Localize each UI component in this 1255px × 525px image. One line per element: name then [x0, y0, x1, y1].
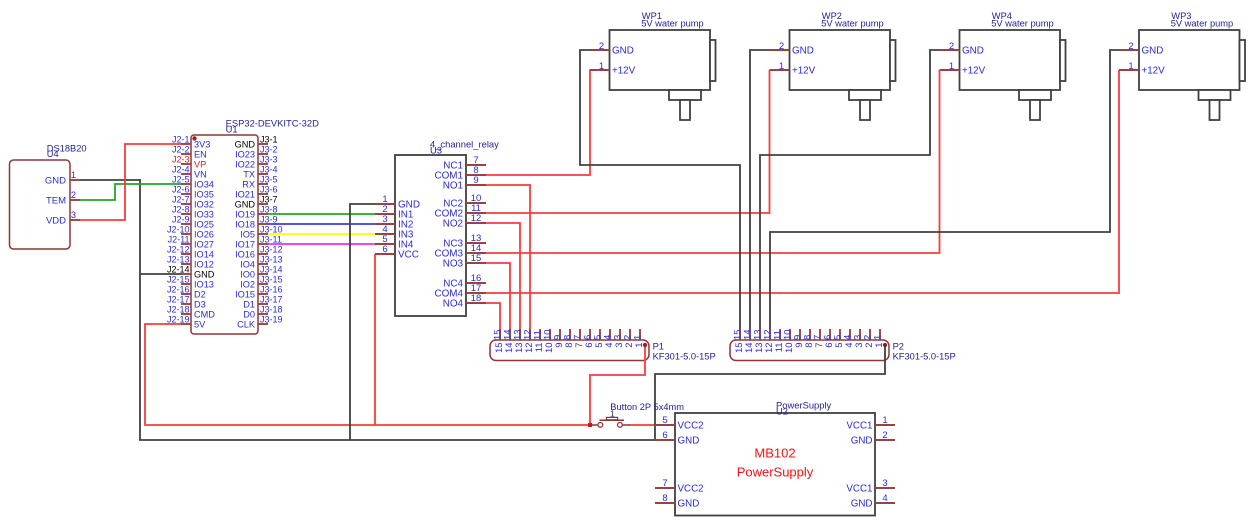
svg-text:9: 9: [473, 175, 478, 186]
svg-text:2: 2: [599, 41, 604, 52]
svg-text:J3-9: J3-9: [260, 215, 278, 225]
svg-text:D2: D2: [194, 289, 206, 299]
svg-text:J2-5: J2-5: [172, 175, 190, 185]
svg-text:J2-19: J2-19: [167, 315, 190, 325]
svg-text:3V3: 3V3: [194, 139, 210, 149]
svg-text:ESP32-DEVKITC-32D: ESP32-DEVKITC-32D: [226, 117, 319, 128]
svg-text:D3: D3: [194, 299, 206, 309]
svg-text:J2-11: J2-11: [168, 235, 190, 245]
svg-text:NO4: NO4: [443, 298, 464, 309]
svg-text:J2-6: J2-6: [172, 185, 190, 195]
svg-text:GND: GND: [678, 498, 700, 509]
svg-text:P2: P2: [893, 342, 904, 352]
svg-text:Button 2P 5x4mm: Button 2P 5x4mm: [610, 402, 684, 412]
svg-text:TX: TX: [243, 169, 255, 179]
svg-text:2: 2: [949, 41, 954, 52]
svg-text:KF301-5.0-15P: KF301-5.0-15P: [653, 351, 716, 361]
svg-text:5V water pump: 5V water pump: [991, 19, 1054, 29]
svg-text:3: 3: [882, 478, 887, 489]
svg-text:IO4: IO4: [240, 259, 255, 269]
svg-text:J3-7: J3-7: [260, 195, 278, 205]
svg-text:J2-1: J2-1: [172, 135, 190, 145]
svg-text:NO2: NO2: [443, 218, 463, 229]
svg-text:J3-14: J3-14: [260, 265, 283, 275]
svg-text:J3-13: J3-13: [260, 255, 283, 265]
svg-text:GND: GND: [678, 435, 700, 446]
svg-text:2: 2: [1128, 41, 1133, 52]
svg-text:3: 3: [71, 210, 76, 220]
svg-text:J2-2: J2-2: [172, 145, 190, 155]
svg-text:1: 1: [949, 61, 954, 72]
svg-text:NO3: NO3: [443, 258, 464, 269]
svg-text:IO19: IO19: [235, 209, 255, 219]
svg-text:IO16: IO16: [235, 249, 255, 259]
svg-text:CLK: CLK: [237, 319, 256, 329]
svg-text:J2-8: J2-8: [172, 205, 190, 215]
svg-text:J2-7: J2-7: [172, 195, 190, 205]
svg-text:MB102: MB102: [754, 446, 795, 461]
svg-text:5V water pump: 5V water pump: [641, 19, 704, 29]
svg-text:2: 2: [882, 430, 887, 441]
svg-text:2: 2: [71, 190, 76, 200]
svg-text:VP: VP: [194, 159, 206, 169]
svg-text:D1: D1: [243, 299, 255, 309]
svg-text:IO12: IO12: [194, 259, 214, 269]
svg-text:1: 1: [633, 335, 644, 340]
svg-text:GND: GND: [851, 498, 873, 509]
svg-text:4: 4: [882, 493, 887, 504]
svg-text:+12V: +12V: [1142, 65, 1166, 76]
svg-text:PowerSupply: PowerSupply: [737, 465, 814, 480]
svg-text:GND: GND: [792, 45, 814, 56]
svg-text:J2-10: J2-10: [167, 225, 190, 235]
svg-text:IO17: IO17: [235, 239, 255, 249]
svg-text:VCC1: VCC1: [846, 420, 872, 431]
svg-text:GND: GND: [962, 45, 984, 56]
svg-text:TEM: TEM: [46, 195, 66, 206]
svg-text:J3-1: J3-1: [260, 135, 278, 145]
svg-text:IO34: IO34: [194, 179, 214, 189]
svg-text:GND: GND: [235, 139, 256, 149]
svg-text:VCC2: VCC2: [678, 483, 704, 494]
svg-text:J2-12: J2-12: [167, 245, 190, 255]
svg-text:1: 1: [882, 415, 887, 426]
svg-text:18: 18: [471, 293, 482, 304]
svg-text:J2-9: J2-9: [172, 215, 190, 225]
svg-text:J3-16: J3-16: [260, 285, 283, 295]
svg-text:+12V: +12V: [962, 65, 986, 76]
svg-text:5V water pump: 5V water pump: [821, 19, 884, 29]
svg-text:IO35: IO35: [194, 189, 214, 199]
svg-text:IO0: IO0: [240, 269, 255, 279]
svg-text:J3-12: J3-12: [260, 245, 283, 255]
svg-text:U3: U3: [430, 144, 442, 155]
svg-text:6: 6: [662, 430, 667, 441]
svg-text:GND: GND: [612, 45, 634, 56]
svg-text:VCC1: VCC1: [846, 483, 872, 494]
svg-text:5: 5: [662, 415, 667, 426]
svg-text:IO15: IO15: [235, 289, 255, 299]
svg-text:D0: D0: [243, 309, 255, 319]
svg-text:IO25: IO25: [194, 219, 214, 229]
svg-text:P1: P1: [653, 342, 664, 352]
svg-text:VN: VN: [194, 169, 207, 179]
svg-text:U1: U1: [226, 124, 238, 135]
svg-text:IO21: IO21: [235, 189, 255, 199]
svg-text:GND: GND: [1142, 45, 1164, 56]
svg-text:+12V: +12V: [792, 65, 816, 76]
svg-text:CMD: CMD: [194, 309, 215, 319]
svg-text:KF301-5.0-15P: KF301-5.0-15P: [893, 351, 956, 361]
svg-text:GND: GND: [851, 435, 873, 446]
svg-text:GND: GND: [235, 199, 256, 209]
svg-text:J2-13: J2-13: [167, 255, 190, 265]
svg-text:IO32: IO32: [194, 199, 214, 209]
svg-text:J3-10: J3-10: [260, 225, 283, 235]
svg-text:VCC: VCC: [398, 249, 419, 260]
svg-text:IO13: IO13: [194, 279, 214, 289]
svg-text:J3-17: J3-17: [260, 295, 283, 305]
svg-text:J3-6: J3-6: [260, 185, 278, 195]
svg-text:IO33: IO33: [194, 209, 214, 219]
svg-text:J3-11: J3-11: [260, 235, 282, 245]
svg-text:2: 2: [779, 41, 784, 52]
svg-text:IO18: IO18: [235, 219, 255, 229]
svg-text:J2-16: J2-16: [167, 285, 190, 295]
svg-text:J2-17: J2-17: [167, 295, 190, 305]
svg-text:VDD: VDD: [46, 215, 66, 226]
svg-text:NO1: NO1: [443, 180, 464, 191]
svg-text:J3-5: J3-5: [260, 175, 278, 185]
svg-text:J3-19: J3-19: [260, 315, 283, 325]
svg-text:1: 1: [599, 61, 604, 72]
svg-text:J3-8: J3-8: [260, 205, 278, 215]
svg-text:J2-18: J2-18: [167, 305, 190, 315]
svg-text:6: 6: [382, 244, 387, 255]
svg-text:IO14: IO14: [194, 249, 214, 259]
svg-text:1: 1: [1128, 61, 1133, 72]
svg-text:IO2: IO2: [240, 279, 255, 289]
svg-text:J3-18: J3-18: [260, 305, 283, 315]
svg-text:J3-3: J3-3: [260, 155, 278, 165]
svg-text:IO27: IO27: [194, 239, 214, 249]
svg-text:12: 12: [471, 213, 482, 224]
svg-text:IO22: IO22: [235, 159, 255, 169]
svg-text:GND: GND: [45, 175, 66, 186]
svg-text:+12V: +12V: [612, 65, 636, 76]
svg-text:J2-4: J2-4: [172, 165, 190, 175]
svg-text:1: 1: [779, 61, 784, 72]
svg-text:15: 15: [471, 253, 482, 264]
svg-text:7: 7: [662, 478, 667, 489]
svg-text:J3-2: J3-2: [260, 145, 278, 155]
svg-text:5V: 5V: [194, 319, 206, 329]
svg-text:J3-15: J3-15: [260, 275, 283, 285]
svg-text:GND: GND: [194, 269, 215, 279]
svg-text:IO26: IO26: [194, 229, 214, 239]
svg-text:8: 8: [662, 493, 667, 504]
svg-text:1: 1: [71, 170, 76, 180]
svg-text:RX: RX: [242, 179, 255, 189]
svg-text:IO23: IO23: [235, 149, 255, 159]
svg-text:1: 1: [873, 335, 884, 340]
svg-text:EN: EN: [194, 149, 207, 159]
svg-text:U4: U4: [47, 149, 59, 159]
svg-text:J2-15: J2-15: [167, 275, 190, 285]
svg-text:J3-4: J3-4: [260, 165, 278, 175]
svg-text:U2: U2: [776, 406, 788, 417]
svg-text:IO5: IO5: [240, 229, 255, 239]
svg-text:J2-14: J2-14: [167, 265, 190, 275]
svg-text:J2-3: J2-3: [172, 155, 190, 165]
svg-text:5V water pump: 5V water pump: [1171, 19, 1234, 29]
svg-text:VCC2: VCC2: [678, 420, 704, 431]
